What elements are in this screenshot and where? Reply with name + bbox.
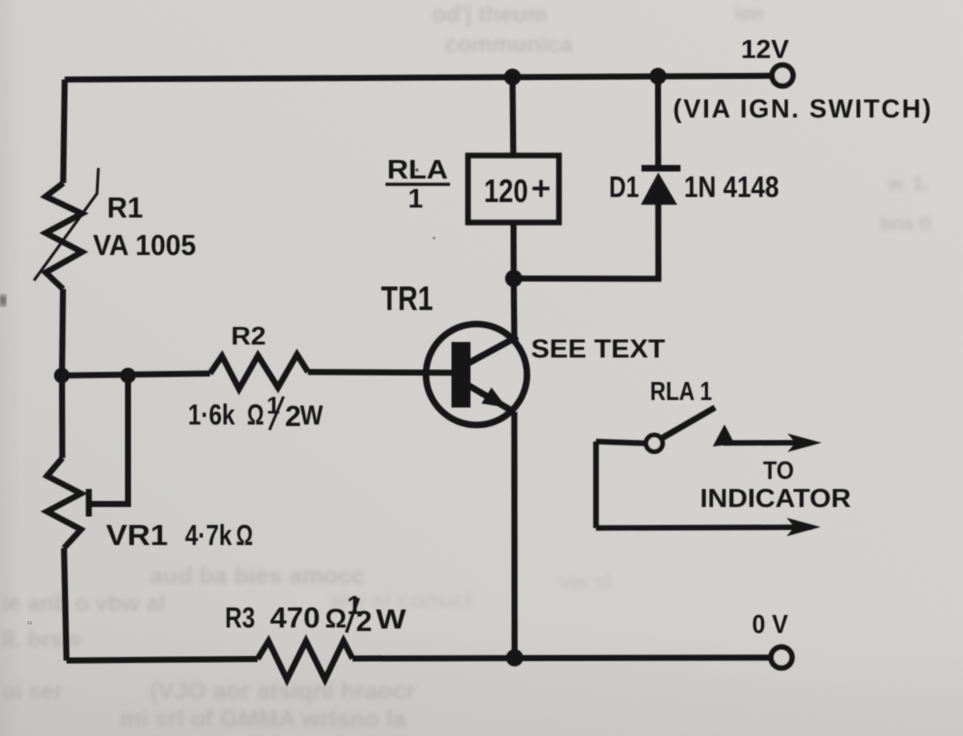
transistor TR1 circle	[426, 324, 527, 425]
wire: emitter down to bottom rail	[511, 412, 517, 658]
transistor TR1 emitter stroke	[466, 384, 514, 412]
svg-text:470: 470	[270, 603, 320, 635]
svg-text:ie anb o vbw al: ie anb o vbw al	[2, 590, 166, 616]
potentiometer VR1 zigzag	[47, 458, 81, 548]
junction dot: emitter / bottom rail	[506, 649, 523, 666]
junction dot: top rail / relay	[504, 69, 521, 86]
contact lever	[661, 408, 715, 439]
svg-text:0 V: 0 V	[752, 609, 789, 639]
svg-text:VR1: VR1	[106, 520, 168, 552]
wire: VR1 wiper branch down from base node	[91, 376, 128, 505]
svg-text:Ω: Ω	[236, 520, 253, 552]
resistor R2 zigzag	[210, 355, 308, 390]
resistor R1 (thermistor zigzag)	[46, 183, 82, 289]
transistor TR1 collector stroke	[466, 337, 518, 365]
arrowhead bottom	[787, 518, 821, 536]
wire: relay coil to collector node	[511, 223, 517, 279]
svg-text:SEE TEXT: SEE TEXT	[531, 334, 665, 364]
svg-text:W: W	[300, 400, 323, 431]
svg-text:RLA 1: RLA 1	[650, 376, 712, 406]
terminal: 12V open circle	[772, 65, 793, 86]
svg-text:TR1: TR1	[381, 280, 433, 318]
svg-text:TO: TO	[763, 457, 794, 485]
contact pivot circle	[646, 435, 663, 452]
svg-text:R1: R1	[107, 193, 143, 225]
svg-text:Ω: Ω	[325, 604, 347, 634]
junction dot: collector node	[505, 270, 522, 287]
svg-text:w. 1.: w. 1.	[887, 174, 928, 195]
contact arrow triangle	[713, 425, 735, 447]
svg-text:1: 1	[267, 393, 280, 420]
svg-text:RLA: RLA	[387, 155, 448, 185]
main schematic	[34, 65, 822, 680]
diode D1 triangle	[641, 173, 677, 205]
wire: base wire from left node to R2	[62, 374, 210, 376]
diode D1 cathode bar	[642, 165, 681, 172]
junction dot: base node wiper	[120, 368, 136, 384]
transistor TR1 base bar	[452, 342, 471, 408]
relay contact RLA1: left vertical	[593, 442, 599, 529]
wire: bottom 0V rail with R3	[67, 659, 258, 661]
wire: relay coil feed from top rail	[510, 77, 517, 156]
junction dot: top rail / D1	[650, 68, 667, 85]
svg-text:1·6k: 1·6k	[188, 399, 236, 431]
svg-text:120: 120	[484, 173, 528, 209]
terminal: 0V open circle	[771, 647, 792, 668]
svg-text:communica: communica	[445, 31, 573, 57]
speck near transistor	[433, 237, 436, 240]
svg-text:aud ba bies amocc: aud ba bies amocc	[150, 563, 365, 590]
wire: base wire from R2 to transistor base	[308, 369, 453, 376]
svg-text:W: W	[376, 604, 407, 635]
thermistor diagonal strike of R1	[34, 168, 98, 281]
svg-text:INDICATOR: INDICATOR	[700, 483, 851, 513]
wire: left vertical branch with R1 and VR1 positions	[63, 80, 64, 184]
svg-text:4·7k: 4·7k	[185, 520, 233, 552]
small mark on left edge	[0, 295, 6, 306]
left edge shading	[0, 0, 22, 736]
wire: top 12V rail	[65, 76, 772, 80]
svg-text:(VIA IGN. SWITCH): (VIA IGN. SWITCH)	[673, 94, 931, 124]
svg-text:1: 1	[408, 184, 423, 214]
wire: D1 bottom lead and horizontal to collector node	[514, 205, 659, 279]
wire: collector node down to transistor collector	[511, 279, 518, 338]
svg-text:2: 2	[356, 606, 372, 638]
speck near relay label	[415, 168, 419, 172]
svg-text:12V: 12V	[741, 34, 790, 64]
junction dot: base node left	[54, 368, 70, 384]
svg-text:R2: R2	[231, 323, 266, 351]
relay coil RLA/1 box	[468, 156, 559, 223]
svg-text:1N 4148: 1N 4148	[684, 171, 779, 204]
wire: bottom rail right of R3 to 0V terminal	[353, 655, 771, 662]
svg-text:2: 2	[285, 401, 301, 433]
wire: left vertical below VR1 to bottom corner	[64, 548, 67, 661]
arrow line to indicator (top)	[723, 440, 812, 446]
svg-text:ion: ion	[735, 4, 764, 25]
svg-text:vw sl: vw sl	[560, 571, 611, 594]
transistor TR1 emitter arrowhead	[482, 388, 507, 408]
svg-text:VA 1005: VA 1005	[93, 230, 196, 262]
svg-text:(VJO aor atsiqni hraocr: (VJO aor atsiqni hraocr	[150, 678, 415, 705]
svg-text:D1: D1	[609, 171, 639, 204]
arrow line to indicator (bottom)	[596, 525, 812, 531]
svg-text:bns tl: bns tl	[880, 214, 931, 235]
svg-text:ui ser: ui ser	[2, 678, 63, 704]
wire: left vertical between R1 and VR1	[62, 289, 63, 458]
svg-text:od'j theum: od'j theum	[432, 1, 547, 27]
svg-text:R3: R3	[225, 603, 255, 635]
wiper bar of VR1	[86, 489, 92, 517]
resistor R3 zigzag	[258, 641, 353, 680]
svg-text:ll. brsw: ll. brsw	[2, 626, 81, 652]
wire: contact fixed lead	[596, 442, 646, 444]
arrowhead top	[788, 434, 822, 453]
svg-text:mi srl of GMMA wrlsno la: mi srl of GMMA wrlsno la	[120, 706, 406, 733]
svg-text:Ω: Ω	[247, 399, 264, 431]
wire: D1 branch from top rail	[655, 76, 661, 165]
